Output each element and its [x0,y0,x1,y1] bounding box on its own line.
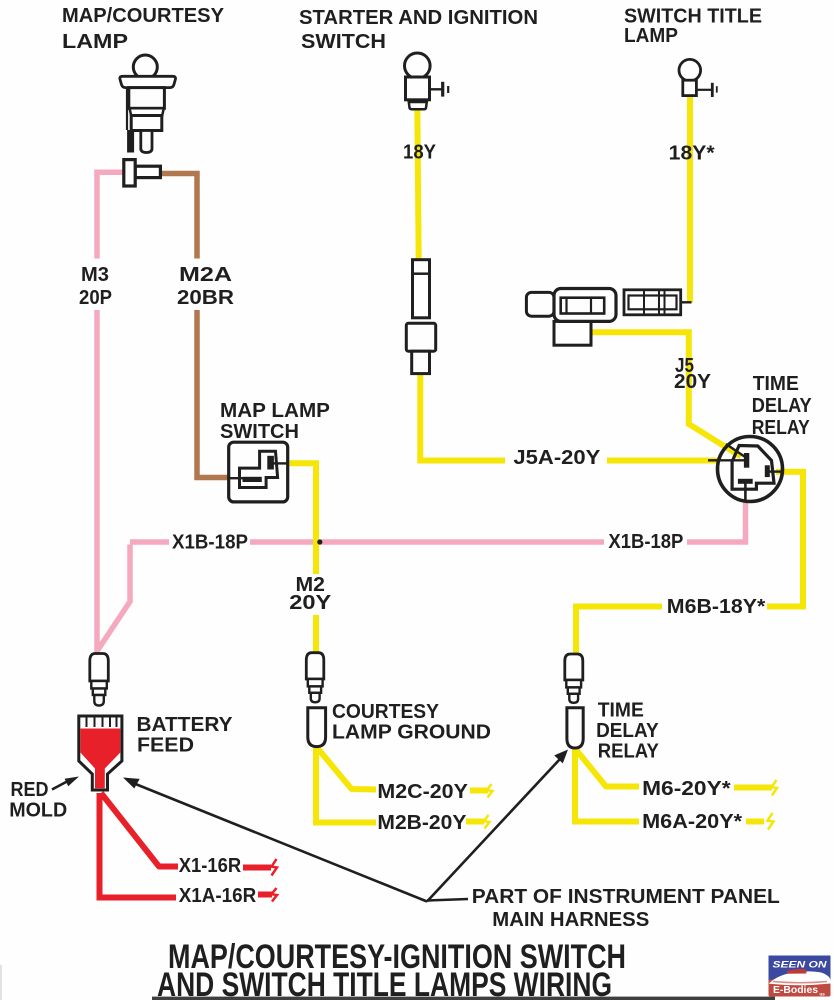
svg-text:M2C-20Y: M2C-20Y [377,781,468,803]
svg-text:M6-20Y*: M6-20Y* [642,778,731,800]
wire M2A-20BR brown (map/courtesy lamp to map lamp switch) [158,174,230,478]
arrow: harness right leg (to time delay relay connector) [427,750,568,902]
svg-text:X1B-18P: X1B-18P [172,532,248,554]
svg-text:MAIN HARNESS: MAIN HARNESS [492,909,649,931]
scan edge bar at bottom [152,997,775,1000]
connector: courtesy lamp ground capsule [308,708,326,747]
svg-text:BATTERY: BATTERY [137,714,234,736]
svg-text:AND SWITCH TITLE LAMPS WIRING: AND SWITCH TITLE LAMPS WIRING [157,966,612,1000]
wire M2B-20Y yellow branch [316,747,490,829]
svg-text:20Y: 20Y [674,371,712,393]
wire X1A-16R red branch [100,793,278,902]
svg-text:PART OF INSTRUMENT PANEL: PART OF INSTRUMENT PANEL [472,886,780,908]
wire J5A-20Y yellow (ignition connector to time delay relay) [420,374,719,461]
svg-text:20BR: 20BR [177,287,235,309]
svg-text:MOLD: MOLD [9,800,67,822]
svg-text:18Y: 18Y [403,142,437,164]
svg-text:RELAY: RELAY [598,741,660,763]
wire 18Y* yellow (switch title lamp down to connector lead) [687,95,693,303]
svg-text:us: us [820,992,826,997]
connector: time delay relay capsule [567,708,583,748]
title: MAP/COURTESY-IGNITION SWITCH AND SWITCH TITLE LAMPS WIRING [157,938,626,1000]
svg-text:X1A-16R: X1A-16R [179,885,257,907]
svg-text:TIME: TIME [753,373,799,395]
svg-text:TIME: TIME [598,700,644,722]
svg-text:18Y*: 18Y* [669,143,715,165]
svg-text:RED: RED [11,779,49,801]
svg-text:M2B-20Y: M2B-20Y [377,812,467,834]
wire M6A-20Y* yellow branch [575,749,774,830]
connector: battery feed bullet (M3/X1B junction) [90,654,109,706]
svg-text:DELAY: DELAY [596,720,659,742]
wire M6B-18Y* yellow (relay right pin down to TDR bullet) [576,472,803,654]
svg-text:X1-16R: X1-16R [179,855,242,877]
connector: time delay relay bullet (M6B) [565,654,583,703]
connector: ignition switch inline connector (vertical stack) [406,260,435,374]
svg-text:LAMP GROUND: LAMP GROUND [332,722,491,744]
lamp: SWITCH TITLE LAMP bulb [679,59,717,97]
wire M6-20Y* yellow branch [576,749,778,796]
svg-text:LAMP: LAMP [62,31,128,53]
svg-text:COURTESY: COURTESY [332,701,440,723]
relay: TIME DELAY RELAY symbol [708,437,783,502]
svg-text:STARTER AND IGNITION: STARTER AND IGNITION [299,7,538,29]
svg-text:M2A: M2A [179,264,232,286]
svg-text:LAMP: LAMP [624,25,678,47]
svg-text:M6B-18Y*: M6B-18Y* [667,596,766,618]
svg-text:M3: M3 [81,264,109,286]
wire 18Y yellow (ignition switch lamp down to connector) [417,107,418,261]
wire M2C-20Y yellow branch [317,747,493,798]
svg-text:FEED: FEED [137,735,194,757]
watermark logo: SEEN ON E-Bodies [769,956,831,997]
svg-text:E-Bodies: E-Bodies [773,984,818,996]
svg-text:MAP LAMP: MAP LAMP [220,400,330,422]
connector: ignition switch plug assembly (horizontal) [526,289,691,346]
node: junction of M2-20Y and X1B-18P [317,539,322,544]
arrow: harness left leg (to battery feed) [123,778,427,902]
connector below map/courtesy lamp [124,160,161,186]
svg-text:SWITCH: SWITCH [220,421,299,443]
svg-text:20Y: 20Y [289,592,332,614]
lamp: MAP/COURTESY LAMP bulb [120,55,176,153]
wire M2-20Y yellow (map lamp switch down to courtesy bullet) [287,463,316,654]
svg-text:MAP/COURTESY: MAP/COURTESY [62,5,225,27]
wire M3-20P pink (map/courtesy lamp to battery feed bullet) [97,172,125,652]
svg-text:J5A-20Y: J5A-20Y [513,447,601,469]
wire X1-16R red branch [101,793,277,876]
switch: MAP LAMP SWITCH [229,442,289,502]
wire X1B-18P pink (main feed line) [98,500,746,650]
svg-text:M6A-20Y*: M6A-20Y* [642,811,742,833]
lamp: STARTER AND IGNITION SWITCH bulb [405,53,449,109]
svg-text:X1B-18P: X1B-18P [608,531,683,553]
svg-text:SWITCH: SWITCH [301,31,386,53]
connector: battery feed molded plug (red mold) [79,716,122,790]
svg-text:20P: 20P [79,287,112,309]
arrow: RED MOLD pointer [52,777,79,790]
svg-text:SEEN ON: SEEN ON [773,960,828,970]
svg-text:RELAY: RELAY [752,417,811,439]
connector: courtesy lamp bullet (M2) [306,653,324,703]
wire J5-20Y yellow (ignition switch connector to relay) [590,332,741,456]
svg-text:DELAY: DELAY [752,395,813,417]
